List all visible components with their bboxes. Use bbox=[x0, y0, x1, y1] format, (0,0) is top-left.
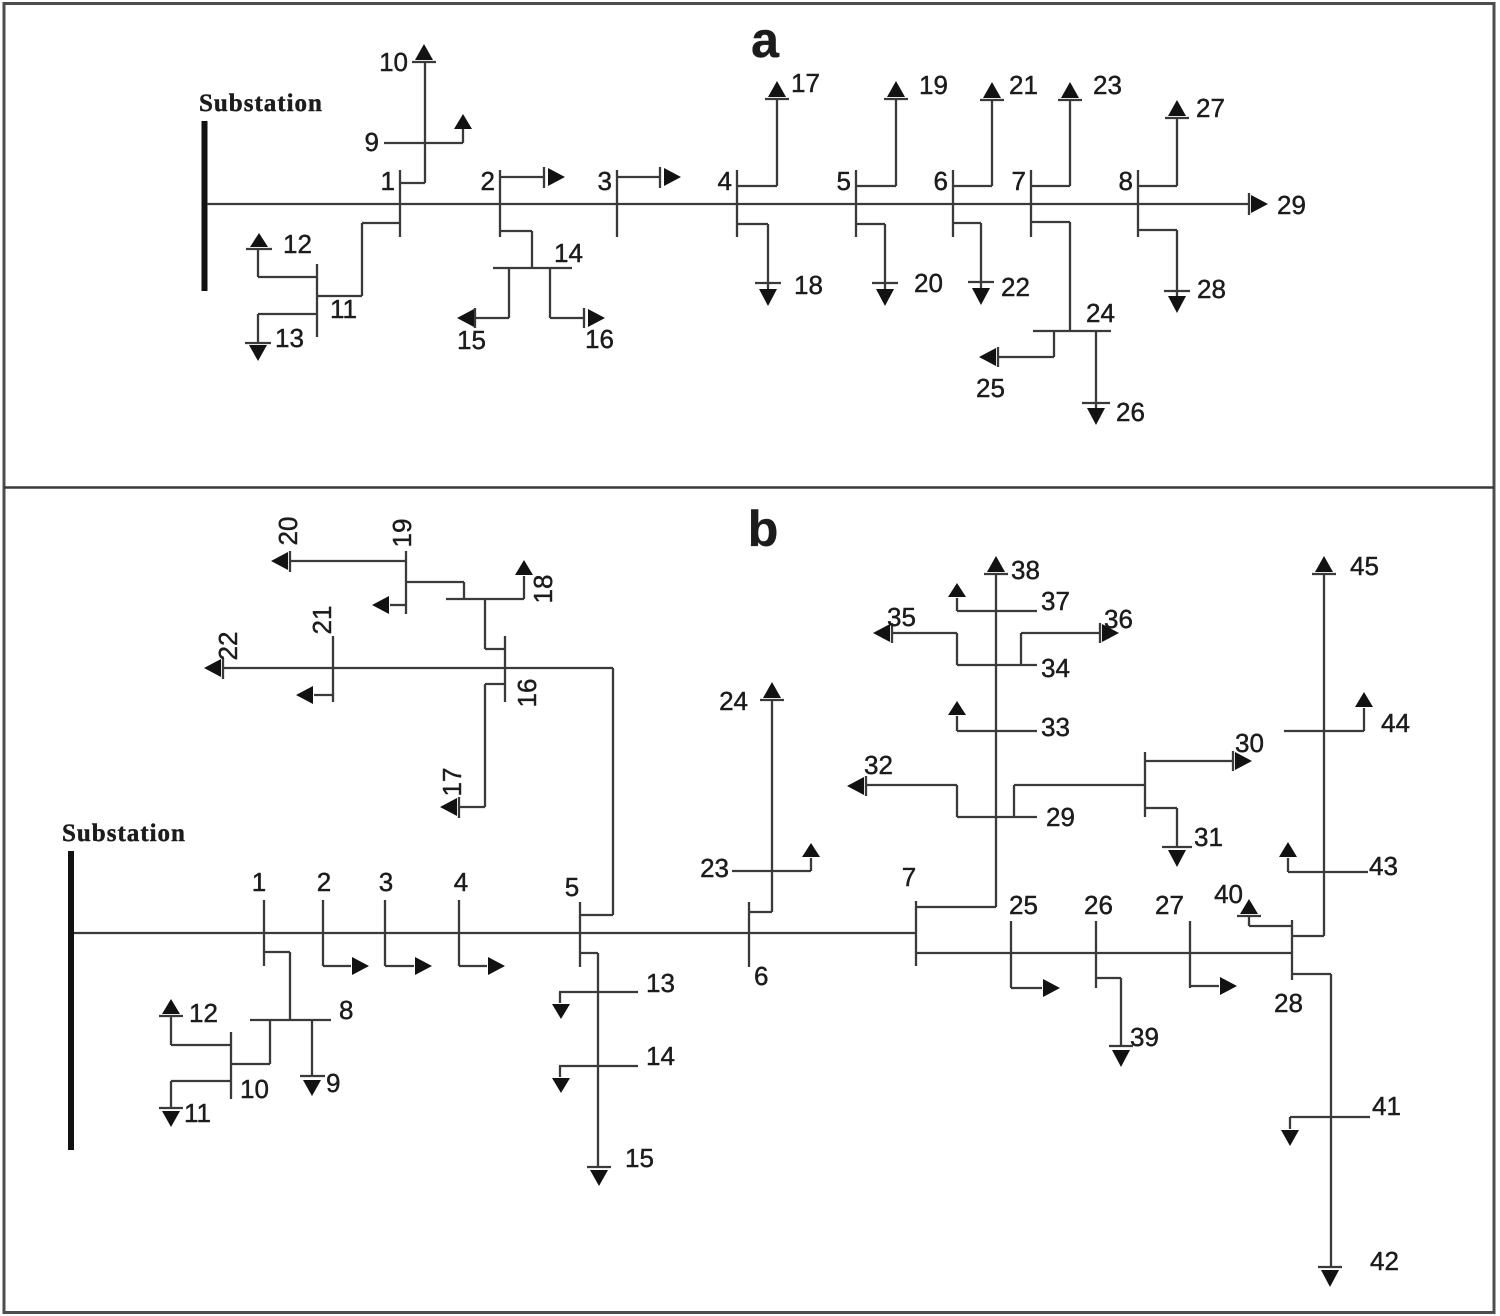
svg-text:21: 21 bbox=[1009, 70, 1038, 100]
bus 41 bar bbox=[1290, 1116, 1370, 1118]
label 24 (panel b) bbox=[719, 686, 748, 716]
load arrow at bus 2 (right) bbox=[500, 167, 565, 188]
load arrow 15 (left) bbox=[457, 308, 475, 328]
load arrow at bus 2 (panel b) bbox=[323, 957, 369, 975]
svg-text:24: 24 bbox=[719, 686, 748, 716]
svg-text:b: b bbox=[748, 501, 779, 557]
label bus 3 (panel a) bbox=[598, 166, 612, 196]
load arrow 14 (panel b) bbox=[552, 1066, 570, 1093]
svg-text:17: 17 bbox=[791, 68, 820, 98]
label 21 (rotated) bbox=[307, 606, 337, 635]
substation label (panel b) bbox=[62, 820, 186, 847]
bus 44 bar bbox=[1284, 730, 1364, 732]
label bus 6 (panel b) bbox=[754, 961, 768, 991]
wire bus5 main drop bbox=[580, 953, 598, 1167]
label 13 (panel b) bbox=[646, 968, 675, 998]
svg-text:35: 35 bbox=[887, 602, 916, 632]
bus 18 bar bbox=[446, 598, 524, 600]
svg-text:14: 14 bbox=[646, 1041, 675, 1071]
label 16 bbox=[585, 324, 614, 354]
svg-text:18: 18 bbox=[528, 575, 558, 604]
svg-text:18: 18 bbox=[794, 270, 823, 300]
svg-text:20: 20 bbox=[914, 268, 943, 298]
label 14 (panel b) bbox=[646, 1041, 675, 1071]
bus 16 tick bbox=[504, 636, 506, 702]
svg-text:44: 44 bbox=[1381, 708, 1410, 738]
svg-text:38: 38 bbox=[1011, 555, 1040, 585]
label bus 3 (panel b) bbox=[379, 867, 393, 897]
svg-text:1: 1 bbox=[381, 166, 395, 196]
feeder arrow 29 bbox=[1249, 193, 1268, 215]
load arrow at bus 19 (left) bbox=[372, 596, 406, 614]
svg-text:31: 31 bbox=[1194, 822, 1223, 852]
load arrow 42 (down) bbox=[1318, 1267, 1342, 1287]
label 13 bbox=[275, 323, 304, 353]
svg-text:9: 9 bbox=[365, 127, 379, 157]
load arrow at bus 21 (left) bbox=[296, 686, 333, 704]
wire bus16 to bar18 bbox=[485, 599, 505, 649]
label 32 bbox=[864, 750, 893, 780]
svg-text:23: 23 bbox=[700, 853, 729, 883]
svg-text:8: 8 bbox=[1119, 166, 1133, 196]
label bus 25 bbox=[1009, 890, 1038, 920]
label 30 bbox=[1235, 728, 1264, 758]
load arrow 16 (right) bbox=[584, 308, 605, 328]
wire bus7 to bus24 bbox=[1031, 222, 1070, 331]
wire branch 9 (panel b) bbox=[311, 1020, 313, 1076]
load arrow 13 (panel b) bbox=[552, 992, 570, 1019]
label 29 bbox=[1277, 190, 1306, 220]
wire+load arrow 22 (down at bus6) bbox=[953, 223, 994, 305]
bus 4 tick (panel b) bbox=[458, 900, 460, 966]
bus 43 bar bbox=[1288, 871, 1368, 873]
label 29 (panel b) bbox=[1046, 802, 1075, 832]
svg-text:3: 3 bbox=[598, 166, 612, 196]
label 8 bbox=[339, 995, 353, 1025]
bus 10 tick bbox=[230, 1032, 232, 1099]
svg-text:16: 16 bbox=[585, 324, 614, 354]
wire branch 39 bbox=[1096, 978, 1121, 1046]
wire bus2 to bus14 bbox=[500, 231, 532, 268]
svg-text:10: 10 bbox=[240, 1074, 269, 1104]
load arrow 41 (down) bbox=[1281, 1117, 1299, 1146]
svg-text:12: 12 bbox=[189, 998, 218, 1028]
bus 5 tick (panel b) bbox=[579, 902, 581, 967]
svg-text:15: 15 bbox=[457, 325, 486, 355]
label bus 28 bbox=[1274, 988, 1303, 1018]
wire+load arrow 18 (down at bus4) bbox=[737, 224, 781, 306]
svg-text:6: 6 bbox=[754, 961, 768, 991]
wire branch 12 (panel b) bbox=[171, 1016, 231, 1045]
label bus 5 (panel b) bbox=[565, 872, 579, 902]
svg-text:42: 42 bbox=[1370, 1246, 1399, 1276]
bus 14 bar bbox=[493, 267, 572, 269]
svg-text:11: 11 bbox=[330, 294, 357, 324]
svg-text:32: 32 bbox=[864, 750, 893, 780]
bus 27 tick bbox=[1189, 921, 1191, 988]
svg-text:5: 5 bbox=[565, 872, 579, 902]
svg-text:13: 13 bbox=[275, 323, 304, 353]
bus 6 tick (panel a) bbox=[952, 170, 954, 237]
label 9 (panel b) bbox=[326, 1068, 340, 1098]
load arrow 44 (up) bbox=[1355, 692, 1373, 731]
svg-text:26: 26 bbox=[1084, 890, 1113, 920]
substation label (panel a) bbox=[199, 90, 323, 117]
label 16 (rotated) bbox=[512, 679, 542, 708]
wire+load arrow 17 (up at bus4) bbox=[737, 81, 789, 186]
svg-text:37: 37 bbox=[1041, 586, 1070, 616]
bus 2 tick (panel b) bbox=[322, 900, 324, 966]
svg-text:16: 16 bbox=[512, 679, 542, 708]
label 12 bbox=[283, 229, 312, 259]
label 18 (rotated) bbox=[528, 575, 558, 604]
wire bus28 riser to 45 bbox=[1292, 575, 1324, 936]
label 38 bbox=[1011, 555, 1040, 585]
label 20 (rotated) bbox=[273, 517, 303, 546]
svg-text:14: 14 bbox=[554, 238, 583, 268]
svg-text:40: 40 bbox=[1214, 879, 1243, 909]
svg-text:2: 2 bbox=[481, 166, 495, 196]
label 42 bbox=[1370, 1246, 1399, 1276]
panel label a bbox=[751, 12, 780, 68]
wire bar29 to bus30 bbox=[1014, 785, 1145, 817]
load arrow 12 (panel b) bbox=[159, 999, 183, 1016]
svg-text:a: a bbox=[751, 12, 780, 68]
bus 4 tick (panel a) bbox=[736, 170, 738, 237]
svg-text:4: 4 bbox=[454, 867, 468, 897]
label bus 2 (panel a) bbox=[481, 166, 495, 196]
label 11 (panel b) bbox=[184, 1098, 211, 1128]
bus 30 tick bbox=[1144, 752, 1146, 817]
label bus 1 (panel a) bbox=[381, 166, 395, 196]
svg-text:15: 15 bbox=[625, 1143, 654, 1173]
label 31 bbox=[1194, 822, 1223, 852]
bus 7 tick (panel b) bbox=[915, 901, 917, 966]
label 26 bbox=[1116, 397, 1145, 427]
bus 29 bar bbox=[957, 816, 1037, 818]
label 44 bbox=[1381, 708, 1410, 738]
wire+load arrow 21 (up at bus6) bbox=[953, 82, 1004, 186]
svg-text:19: 19 bbox=[387, 519, 417, 548]
svg-text:33: 33 bbox=[1041, 712, 1070, 742]
wire branch 16 bbox=[550, 268, 584, 318]
svg-text:13: 13 bbox=[646, 968, 675, 998]
svg-text:2: 2 bbox=[317, 867, 331, 897]
svg-text:10: 10 bbox=[379, 47, 408, 77]
svg-text:27: 27 bbox=[1155, 890, 1184, 920]
wire branch 13 bbox=[258, 314, 317, 343]
wire branch 11 (panel b) bbox=[171, 1081, 231, 1108]
main feeder wire (panel a) bbox=[207, 203, 1249, 205]
load arrow 17 (left, panel b) bbox=[440, 797, 459, 818]
wire branch 25 bbox=[998, 331, 1054, 357]
label bus 7 (panel b) bbox=[902, 862, 916, 892]
label 33 bbox=[1041, 712, 1070, 742]
label 10 bbox=[379, 47, 408, 77]
svg-text:41: 41 bbox=[1372, 1091, 1401, 1121]
label 19 bbox=[919, 70, 948, 100]
bus 23 bar bbox=[732, 870, 811, 872]
label 15 (panel b) bbox=[625, 1143, 654, 1173]
bus 6 tick (panel b) bbox=[748, 902, 750, 967]
wire+load arrow 27 (up at bus8) bbox=[1138, 100, 1189, 186]
wire+load arrow 20 (down at bus5) bbox=[856, 224, 898, 306]
wire bus1 to riser-10 bbox=[400, 62, 425, 183]
svg-text:Substation: Substation bbox=[62, 820, 186, 847]
svg-text:29: 29 bbox=[1277, 190, 1306, 220]
wire+load arrow 23 (up at bus7) bbox=[1031, 82, 1082, 186]
panel label b bbox=[748, 501, 779, 557]
svg-text:7: 7 bbox=[1012, 166, 1026, 196]
svg-text:36: 36 bbox=[1104, 604, 1133, 634]
svg-text:5: 5 bbox=[837, 166, 851, 196]
svg-text:23: 23 bbox=[1093, 70, 1122, 100]
substation bus bar (panel a) bbox=[202, 121, 208, 291]
label 23 (panel b) bbox=[700, 853, 729, 883]
load arrow 13 bbox=[245, 343, 271, 361]
svg-text:1: 1 bbox=[252, 867, 266, 897]
label 23 bbox=[1093, 70, 1122, 100]
svg-text:24: 24 bbox=[1086, 298, 1115, 328]
label bus 4 (panel a) bbox=[718, 166, 732, 196]
label 37 bbox=[1041, 586, 1070, 616]
bus 34 bar bbox=[957, 664, 1037, 666]
main feeder wire (panel b, lower) bbox=[916, 952, 1292, 954]
bus 11 tick bbox=[316, 264, 318, 337]
wire+load arrow 40 (up) bbox=[1237, 899, 1292, 926]
wire bus16 to arrow17 bbox=[459, 684, 505, 807]
label 34 bbox=[1041, 653, 1070, 683]
wire+load arrow 35 (left) bbox=[873, 623, 957, 665]
wire branch 15 bbox=[475, 268, 509, 318]
bus 3 tick (panel b) bbox=[384, 900, 386, 966]
label 40 bbox=[1214, 879, 1243, 909]
wire+load arrow 28 (down at bus8) bbox=[1138, 230, 1190, 313]
label 39 bbox=[1130, 1022, 1159, 1052]
label bus 5 (panel a) bbox=[837, 166, 851, 196]
bus 19 tick bbox=[405, 551, 407, 614]
load arrow 31 (down) bbox=[1162, 847, 1192, 867]
wire branch 26 bbox=[1095, 331, 1097, 408]
label 41 bbox=[1372, 1091, 1401, 1121]
load arrow 25 (left) bbox=[979, 347, 998, 367]
svg-text:25: 25 bbox=[1009, 890, 1038, 920]
label 20 bbox=[914, 268, 943, 298]
bus 24 bar bbox=[1033, 330, 1111, 332]
svg-text:3: 3 bbox=[379, 867, 393, 897]
wire branch 12 bbox=[258, 249, 317, 277]
wire bus1 to bus11 staircase bbox=[317, 223, 400, 296]
svg-text:17: 17 bbox=[437, 768, 467, 797]
load arrow at bus 25 (right) bbox=[1011, 979, 1060, 997]
svg-text:9: 9 bbox=[326, 1068, 340, 1098]
label 12 (panel b) bbox=[189, 998, 218, 1028]
svg-text:43: 43 bbox=[1369, 851, 1398, 881]
svg-text:30: 30 bbox=[1235, 728, 1264, 758]
load arrow 43 (up) bbox=[1279, 842, 1297, 872]
wire branch 31 bbox=[1145, 808, 1177, 847]
wire bar18 to bus19 bbox=[406, 582, 464, 599]
svg-text:25: 25 bbox=[976, 373, 1005, 403]
wire+load arrow 19 (up at bus5) bbox=[856, 81, 908, 186]
load arrow 18 (up) bbox=[515, 560, 533, 599]
bus 14 bar (panel b) bbox=[559, 1065, 638, 1067]
label 25 bbox=[976, 373, 1005, 403]
label 11 bbox=[330, 294, 357, 324]
svg-text:39: 39 bbox=[1130, 1022, 1159, 1052]
label 17 (rotated) bbox=[437, 768, 467, 797]
svg-text:26: 26 bbox=[1116, 397, 1145, 427]
label 10 (panel b) bbox=[240, 1074, 269, 1104]
label bus 27 bbox=[1155, 890, 1184, 920]
label 15 bbox=[457, 325, 486, 355]
load arrow 9 (up) bbox=[454, 114, 472, 129]
wire bus8 to bus10 bbox=[231, 1020, 270, 1064]
bus 5 tick (panel a) bbox=[855, 170, 857, 237]
label 9 bbox=[365, 127, 379, 157]
label bus 8 (panel a) bbox=[1119, 166, 1133, 196]
load arrow 11 (panel b) bbox=[159, 1108, 183, 1127]
svg-text:27: 27 bbox=[1196, 93, 1225, 123]
label 17 bbox=[791, 68, 820, 98]
svg-text:19: 19 bbox=[919, 70, 948, 100]
label 24 bbox=[1086, 298, 1115, 328]
label 28 bbox=[1197, 274, 1226, 304]
load arrow 15 (panel b) bbox=[587, 1167, 611, 1186]
wire bus1 to bus8 bbox=[264, 952, 290, 1020]
label 45 bbox=[1350, 551, 1379, 581]
load arrow 38 (up) bbox=[984, 556, 1008, 574]
load arrow 37 (up) bbox=[948, 583, 966, 611]
label 19 (rotated) bbox=[387, 519, 417, 548]
load arrow at bus 4 (panel b) bbox=[459, 957, 505, 975]
svg-text:45: 45 bbox=[1350, 551, 1379, 581]
load arrow 12 bbox=[246, 233, 272, 249]
svg-text:7: 7 bbox=[902, 862, 916, 892]
wire branch 9 bbox=[384, 129, 463, 143]
label 43 bbox=[1369, 851, 1398, 881]
substation bus bar (panel b) bbox=[68, 851, 74, 1150]
wire bus7 riser to 38 bbox=[916, 574, 996, 907]
wire+load arrow 32 (left) bbox=[847, 776, 957, 817]
svg-text:Substation: Substation bbox=[199, 90, 323, 117]
label bus 26 bbox=[1084, 890, 1113, 920]
panel divider line bbox=[4, 486, 1494, 488]
svg-text:22: 22 bbox=[1001, 272, 1030, 302]
load arrow 39 (down) bbox=[1109, 1046, 1133, 1067]
label 27 bbox=[1196, 93, 1225, 123]
load arrow 9 (panel b) bbox=[300, 1076, 325, 1096]
bus 13 bar bbox=[559, 991, 638, 993]
svg-text:22: 22 bbox=[213, 632, 243, 661]
bus 8 tick (panel a) bbox=[1137, 170, 1139, 237]
label bus 7 (panel a) bbox=[1012, 166, 1026, 196]
wire bus28 drop to 42 bbox=[1292, 974, 1331, 1267]
label bus 4 (panel b) bbox=[454, 867, 468, 897]
load arrow 33 (up) bbox=[948, 701, 966, 731]
bus 28 tick bbox=[1291, 920, 1293, 980]
bus 7 tick (panel a) bbox=[1030, 170, 1032, 237]
wire bus5 to riser-16 bbox=[580, 668, 613, 915]
load arrow 45 (up) bbox=[1312, 556, 1336, 574]
load arrow at 23 (up) bbox=[802, 843, 820, 871]
wire 16-21-22 lateral bbox=[223, 667, 613, 669]
load arrow 10 bbox=[412, 44, 436, 62]
load arrow 24 (up) bbox=[760, 682, 784, 700]
label bus 1 (panel b) bbox=[252, 867, 266, 897]
svg-text:8: 8 bbox=[339, 995, 353, 1025]
wire+load arrow 30 (right) bbox=[1145, 751, 1252, 771]
label 36 bbox=[1104, 604, 1133, 634]
svg-text:11: 11 bbox=[184, 1098, 211, 1128]
bus 37 bar bbox=[957, 610, 1037, 612]
svg-text:6: 6 bbox=[934, 166, 948, 196]
load arrow 26 (down) bbox=[1082, 403, 1110, 425]
svg-text:4: 4 bbox=[718, 166, 732, 196]
bus 25 tick bbox=[1010, 921, 1012, 988]
bus 3 tick (panel a) bbox=[616, 170, 618, 237]
svg-text:12: 12 bbox=[283, 229, 312, 259]
label bus 6 (panel a) bbox=[934, 166, 948, 196]
load arrow 22 bbox=[204, 658, 223, 679]
bus 1 tick (panel a) bbox=[399, 170, 401, 237]
wire bus6 riser to 24 bbox=[749, 700, 772, 912]
bus 1 tick (panel b) bbox=[263, 900, 265, 966]
bus 21 tick bbox=[332, 636, 334, 702]
label 22 bbox=[1001, 272, 1030, 302]
wire+load arrow 36 (right) bbox=[1021, 623, 1119, 665]
svg-text:28: 28 bbox=[1197, 274, 1226, 304]
load arrow at bus 3 (right) bbox=[617, 167, 681, 188]
wire+load arrow 20 (left) bbox=[271, 551, 406, 572]
main feeder wire (panel b, upper) bbox=[74, 932, 916, 934]
svg-text:20: 20 bbox=[273, 517, 303, 546]
label bus 2 (panel b) bbox=[317, 867, 331, 897]
label 21 bbox=[1009, 70, 1038, 100]
label 14 bbox=[554, 238, 583, 268]
svg-text:34: 34 bbox=[1041, 653, 1070, 683]
label 35 bbox=[887, 602, 916, 632]
label 22 (rotated) bbox=[213, 632, 243, 661]
bus 26 tick bbox=[1095, 921, 1097, 988]
bus 8 bar bbox=[250, 1019, 331, 1021]
svg-text:28: 28 bbox=[1274, 988, 1303, 1018]
svg-text:21: 21 bbox=[307, 606, 337, 635]
load arrow at bus 3 (panel b) bbox=[385, 957, 432, 975]
label 18 bbox=[794, 270, 823, 300]
svg-text:29: 29 bbox=[1046, 802, 1075, 832]
bus 33 bar bbox=[957, 730, 1037, 732]
load arrow at bus 27 (right) bbox=[1190, 977, 1237, 995]
bus 2 tick (panel a) bbox=[499, 170, 501, 237]
